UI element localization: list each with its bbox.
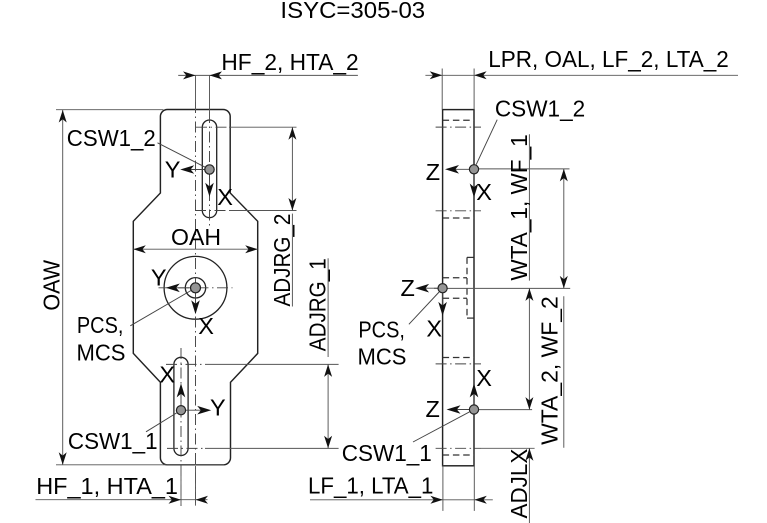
dim ADJRG_2 underline — [291, 214, 293, 307]
center bore inner circle — [185, 278, 205, 298]
circle horizontal centerline — [159, 287, 233, 289]
dot PCS side — [438, 284, 447, 293]
side view outline — [443, 110, 474, 466]
svg-text:Z: Z — [401, 275, 415, 301]
svg-text:X: X — [159, 361, 175, 387]
ext CSW1_1 level — [474, 409, 532, 411]
svg-text:X: X — [476, 179, 492, 205]
dim ADJLX line — [528, 448, 530, 523]
hidden thru-hole top — [443, 277, 467, 279]
CSW1_1 Y axis arrow — [181, 409, 208, 411]
dim WTA_2 bottom arrow — [525, 397, 533, 410]
svg-text:LPR, OAL, LF_2, LTA_2: LPR, OAL, LF_2, LTA_2 — [488, 46, 729, 72]
dim OAW top ext — [56, 109, 163, 111]
CSW1_2 X axis arrow — [209, 170, 211, 194]
side bottom slot lower centerline — [436, 447, 481, 449]
svg-text:OAH: OAH — [171, 224, 221, 250]
dot CSW1_2 position — [205, 165, 214, 174]
svg-text:MCS: MCS — [358, 344, 407, 370]
dim LPR line — [425, 74, 738, 76]
bottom slot upper end centerline — [166, 363, 205, 365]
center bore outer circle — [164, 256, 227, 319]
dot CSW1_2 side — [469, 165, 478, 174]
top slot lower end centerline — [195, 210, 229, 212]
svg-text:Z: Z — [426, 396, 440, 422]
dim LPR right arrow — [474, 71, 487, 79]
hidden thru-hole bottom — [443, 297, 467, 299]
bottom slot vertical centerline — [180, 348, 182, 506]
leader CSW1_1 side — [413, 412, 469, 442]
hidden line bottom slot lower — [443, 454, 474, 456]
dim OAW bottom ext — [56, 464, 224, 466]
side bore centerline — [434, 287, 443, 289]
svg-text:X: X — [217, 184, 233, 210]
svg-text:ADJRG_1: ADJRG_1 — [305, 258, 331, 351]
svg-text:ISYC=305-03: ISYC=305-03 — [280, 0, 425, 23]
dim WTA_1 top arrow — [560, 169, 568, 182]
svg-text:HF_2, HTA_2: HF_2, HTA_2 — [221, 49, 358, 75]
dim HF_2 line — [178, 74, 358, 76]
dim WTA_1 bottom arrow — [560, 276, 568, 289]
CSW1_1 side X arrow — [473, 387, 475, 409]
leader PCS side — [409, 292, 439, 324]
ext ADJLX top — [481, 447, 535, 449]
dim HF_1 ext right — [195, 466, 197, 506]
leader PCS left — [130, 291, 191, 326]
dot CSW1_1 side — [469, 405, 478, 414]
ext PCS level — [443, 287, 571, 289]
dim LF_1 ext right — [473, 465, 475, 511]
dim WTA_1 underline — [528, 134, 530, 280]
svg-text:Y: Y — [165, 157, 181, 183]
dim HF_1 right arrow — [196, 496, 209, 504]
PCS side Z arrow — [419, 287, 443, 289]
svg-text:Y: Y — [210, 395, 226, 421]
svg-text:Z: Z — [426, 159, 440, 185]
dim LPR ext left — [441, 69, 443, 110]
ext line ADJRG_2 top — [229, 126, 297, 128]
svg-text:CSW1_1: CSW1_1 — [342, 440, 432, 466]
leader CSW1_2 left — [158, 143, 205, 167]
hidden counterbore bottom — [467, 317, 474, 319]
hidden line top slot lower — [443, 217, 474, 219]
CSW1_2 side X arrow — [473, 169, 475, 194]
dim OAW line — [62, 110, 64, 465]
svg-text:PCS,: PCS, — [358, 317, 405, 343]
hidden line bottom slot upper — [443, 357, 474, 359]
top slot upper end centerline — [196, 126, 229, 128]
dim LPR ext right — [473, 69, 475, 110]
dim WTA_1 line — [563, 169, 565, 289]
left view bottom slot — [174, 357, 188, 455]
leader CSW1_2 side — [476, 120, 497, 165]
dim OAW top arrow — [59, 110, 67, 123]
part vertical centerline — [195, 102, 197, 506]
dim HF_2 left arrow — [183, 71, 196, 79]
dim WTA_2 top arrow — [525, 288, 533, 301]
svg-text:WTA_1, WF_1: WTA_1, WF_1 — [506, 134, 532, 280]
svg-text:X: X — [476, 365, 492, 391]
dim ADJRG_2 line — [291, 127, 293, 210]
side top slot lower centerline — [436, 210, 481, 212]
dim HF_2 ext right — [209, 75, 211, 120]
dim ADJLX arrow — [525, 448, 533, 461]
top slot vertical centerline — [209, 112, 211, 226]
CSW1_1 X axis arrow — [180, 387, 182, 410]
dim OAH left arrow — [133, 245, 146, 253]
PCS X axis arrow — [195, 288, 197, 311]
svg-text:ADJRG_2: ADJRG_2 — [269, 214, 295, 307]
dim WTA_2 line — [528, 288, 530, 409]
dim LF_1 left arrow — [430, 496, 443, 504]
dim HF_1 line — [36, 499, 208, 501]
CSW1_1 side Z arrow — [450, 409, 474, 411]
svg-text:Y: Y — [151, 264, 167, 290]
dim OAW bottom arrow — [59, 452, 67, 465]
dim ADJRG_1 top arrow — [324, 364, 332, 377]
CSW1_2 Y axis arrow — [184, 169, 210, 171]
svg-text:HF_1, HTA_1: HF_1, HTA_1 — [36, 473, 178, 499]
PCS side X arrow — [442, 288, 444, 312]
dot PCS/MCS center — [191, 283, 201, 293]
dim LF_1 ext left — [442, 465, 444, 511]
svg-text:MCS: MCS — [77, 339, 126, 365]
dim LPR left arrow — [430, 71, 443, 79]
side top slot upper centerline — [436, 126, 481, 128]
dim LF_1 right arrow — [474, 496, 487, 504]
svg-text:X: X — [426, 315, 442, 341]
svg-text:OAW: OAW — [39, 259, 65, 310]
dim HF_1 left arrow — [169, 496, 182, 504]
hidden counterbore top — [467, 256, 474, 258]
dim ADJRG_1 underline — [327, 258, 329, 357]
ext line ADJRG_2 bottom — [229, 210, 297, 212]
svg-text:X: X — [198, 313, 214, 339]
svg-text:LF_1, LTA_1: LF_1, LTA_1 — [308, 472, 433, 498]
dim OAH line — [133, 248, 257, 250]
hidden counterbore depth — [466, 257, 468, 318]
dim ADJRG_1 line — [327, 364, 329, 448]
dim HF_2 right arrow — [210, 71, 223, 79]
svg-text:CSW1_2: CSW1_2 — [67, 125, 156, 151]
dim HF_2 ext left — [195, 75, 197, 110]
dim ADJRG_2 top arrow — [288, 127, 296, 140]
dim WTA_2 underline — [563, 296, 565, 448]
dot CSW1_1 position — [176, 406, 185, 415]
CSW1_2 side Z arrow — [449, 168, 475, 170]
dim HF_1 ext left — [180, 466, 182, 506]
dim OAH right arrow — [245, 245, 258, 253]
svg-text:PCS,: PCS, — [77, 312, 124, 338]
left view top slot — [202, 120, 216, 218]
ext line ADJRG_1 bottom — [205, 447, 339, 449]
svg-text:CSW1_1: CSW1_1 — [68, 428, 158, 454]
dim LF_1 line — [310, 499, 493, 501]
left view part outline — [133, 110, 257, 465]
svg-text:ADJLX: ADJLX — [506, 448, 532, 518]
ext CSW1_2 level — [474, 168, 570, 170]
dim ADJRG_2 bottom arrow — [288, 198, 296, 211]
bottom slot lower end centerline — [167, 447, 205, 449]
svg-text:WTA_2, WF_2: WTA_2, WF_2 — [537, 296, 563, 445]
PCS Y axis arrow — [170, 287, 196, 289]
dim ADJRG_1 bottom arrow — [324, 436, 332, 449]
side bottom slot upper centerline — [436, 363, 481, 365]
ext line ADJRG_1 top — [205, 363, 339, 365]
hidden line top slot upper — [443, 119, 474, 121]
leader CSW1_1 left — [146, 413, 177, 432]
svg-text:CSW1_2: CSW1_2 — [495, 95, 585, 121]
